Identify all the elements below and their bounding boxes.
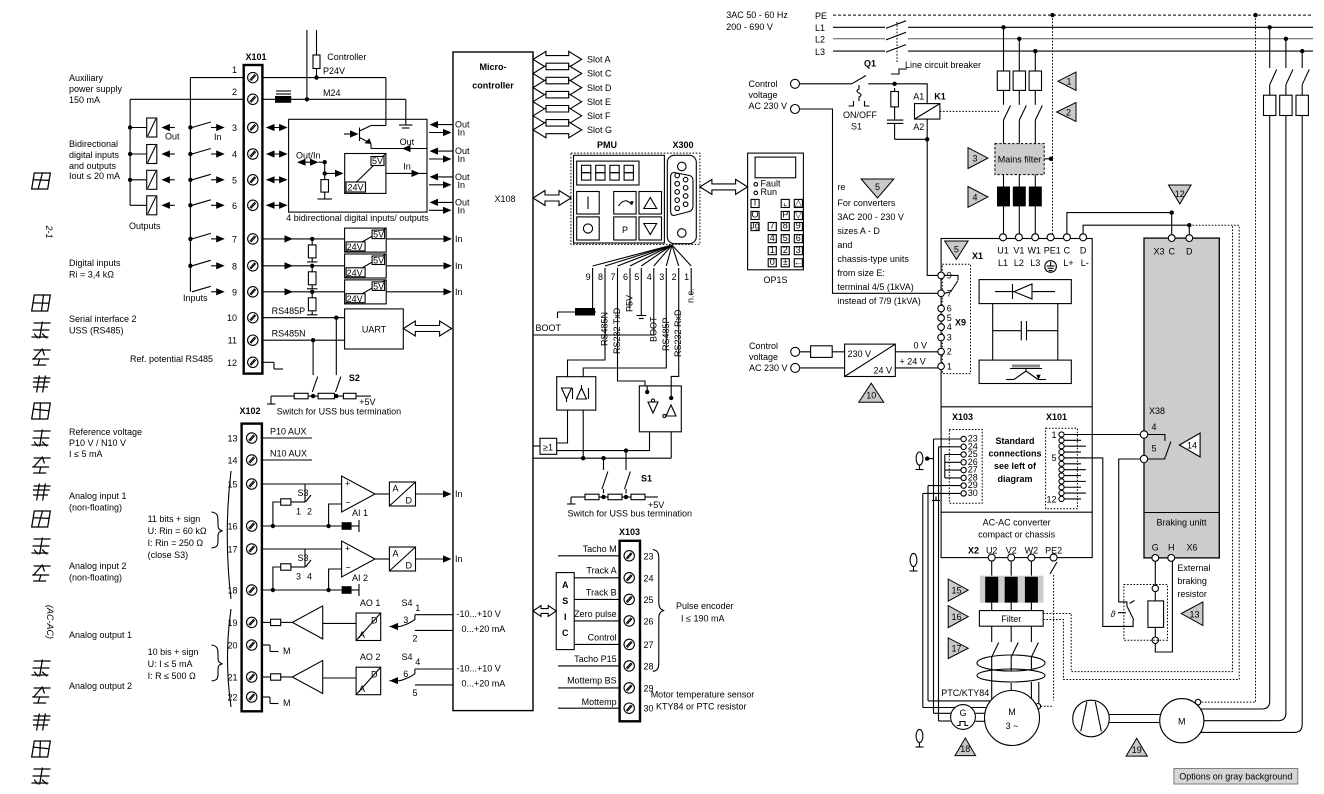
wire AI 2 to microcontroller (416, 558, 450, 560)
X9 terminal column (942, 264, 970, 373)
svg-text:Mains filter: Mains filter (998, 155, 1042, 165)
UART block (345, 309, 404, 349)
svg-text:Mottemp: Mottemp (582, 697, 617, 707)
svg-text:Control: Control (588, 633, 617, 643)
svg-text:A2: A2 (913, 122, 924, 132)
svg-text:Analog output 1: Analog output 1 (69, 630, 132, 640)
svg-text:For converters: For converters (837, 198, 896, 208)
option triangle 17 (948, 638, 968, 659)
fuse in control branch (894, 88, 896, 92)
svg-text:sizes A - D: sizes A - D (837, 226, 880, 236)
svg-text:Digital inputs: Digital inputs (69, 258, 121, 268)
X102 terminal 16 screw (247, 521, 257, 531)
capacitor in control branch (887, 119, 904, 121)
svg-text:PMU: PMU (597, 140, 617, 150)
X101 internal terminal 2 (1059, 438, 1064, 443)
svg-text:Ri = 3,4 kΩ: Ri = 3,4 kΩ (69, 270, 114, 280)
wire pin 8 RS485N (568, 282, 606, 377)
PE2 slash and dashed drop (1050, 562, 1057, 574)
input switch row 4 (188, 152, 192, 156)
output bus wire (129, 99, 131, 205)
svg-text:and outputs: and outputs (69, 161, 117, 171)
svg-text:UART: UART (362, 325, 387, 335)
wire transceiver to serial bus (582, 410, 584, 458)
rectifier block (979, 280, 1071, 304)
Out arrow to microcontroller row 3 (431, 124, 453, 126)
svg-text:12: 12 (1046, 494, 1056, 504)
svg-text:Pulse encoder: Pulse encoder (676, 601, 734, 611)
svg-text:27: 27 (644, 640, 654, 650)
svg-text:L2: L2 (815, 35, 825, 45)
svg-text:Control: Control (749, 79, 778, 89)
wire AI 1 to microcontroller (416, 493, 450, 495)
In arrow from microcontroller row 4 (429, 158, 450, 160)
svg-text:P10 V / N10 V: P10 V / N10 V (69, 438, 126, 448)
external braking resistor wiring (1154, 561, 1156, 585)
svg-text:I: I (564, 612, 567, 622)
svg-text:24V: 24V (347, 294, 363, 304)
svg-text:Switch for USS bus termination: Switch for USS bus termination (568, 509, 693, 519)
svg-text:Mottemp BS: Mottemp BS (567, 676, 617, 686)
svg-text:14: 14 (227, 456, 237, 466)
svg-text:In: In (455, 234, 463, 244)
tacho to motor shaft (975, 712, 985, 714)
svg-text:X9: X9 (955, 318, 966, 328)
svg-text:5: 5 (783, 233, 788, 243)
DC link wires (992, 304, 994, 361)
svg-text:150 mA: 150 mA (69, 95, 100, 105)
wire D to braking unit (1083, 225, 1189, 235)
wire P10 AUX terminal 13 (262, 437, 312, 439)
svg-text:3: 3 (659, 272, 664, 282)
svg-text:10: 10 (227, 313, 237, 323)
svg-text:External: External (1177, 563, 1210, 573)
svg-text:Run: Run (761, 187, 778, 197)
connector X300 sub-D (667, 155, 696, 243)
svg-text:-10...+10 V: -10...+10 V (457, 609, 501, 619)
svg-text:Slot D: Slot D (587, 83, 612, 93)
X102 terminal 13 screw (247, 433, 257, 443)
motor M2 PE terminal (1195, 699, 1201, 705)
svg-text:24V: 24V (347, 242, 363, 252)
svg-text:5: 5 (1051, 453, 1056, 463)
wire Track B (574, 598, 619, 600)
svg-text:AC 230 V: AC 230 V (749, 101, 788, 111)
wire transceiver to OR gate (557, 410, 568, 443)
svg-text:(non-floating): (non-floating) (69, 573, 122, 583)
S2 resistor chain (271, 395, 294, 397)
svg-text:In: In (214, 132, 222, 142)
svg-text:A: A (359, 684, 365, 694)
PE drop wire dashed (1052, 15, 1054, 234)
svg-text:I: Rin = 250 Ω: I: Rin = 250 Ω (148, 538, 204, 548)
svg-text:(close S3): (close S3) (148, 550, 189, 560)
optocoupler output row 4 (130, 153, 147, 155)
wire N10 AUX terminal 14 (262, 459, 312, 461)
slot arrow Slot E (533, 94, 582, 110)
svg-text:4: 4 (307, 572, 312, 582)
RS485 transceiver block (557, 377, 596, 410)
svg-text:9: 9 (586, 272, 591, 282)
svg-text:1: 1 (684, 272, 689, 282)
svg-text:AO 1: AO 1 (360, 598, 381, 608)
svg-text:Track B: Track B (586, 588, 617, 598)
second branch fuse 2 (1280, 95, 1292, 115)
brace 11 bits group (212, 512, 223, 548)
svg-text:D: D (406, 561, 413, 571)
contactor K1 contact phase 2 (1018, 90, 1020, 104)
wire 0V to X9-2 (895, 351, 941, 353)
svg-text:1: 1 (296, 507, 301, 517)
ASIC block (556, 573, 574, 650)
option triangle 16 (948, 606, 968, 628)
svg-text:S3: S3 (298, 488, 309, 498)
svg-text:←: ← (794, 257, 803, 267)
svg-text:7: 7 (610, 272, 615, 282)
svg-text:10: 10 (866, 391, 876, 401)
X101 internal terminal 9 (1059, 479, 1064, 484)
S1 tap wires (603, 458, 605, 470)
svg-text:Serial interface 2: Serial interface 2 (69, 314, 137, 324)
AC-AC converter enclosure (941, 239, 1092, 558)
op-amp AI 1 (342, 476, 375, 512)
svg-text:Out: Out (400, 137, 415, 147)
svg-text:24: 24 (644, 573, 654, 583)
svg-text:Zero pulse: Zero pulse (574, 609, 617, 619)
svg-text:3: 3 (296, 572, 301, 582)
OR gate (540, 438, 557, 454)
wire Mottemp BS (558, 687, 620, 689)
OP1S key 0 (768, 259, 776, 267)
In arrow from microcontroller row 3 (429, 132, 450, 134)
svg-text:11 bits + sign: 11 bits + sign (148, 514, 201, 524)
svg-text:11: 11 (228, 336, 237, 346)
buffer amplifier AO 1 (292, 606, 322, 639)
X101 terminal 9 screw (248, 287, 258, 297)
svg-text:M: M (1178, 717, 1186, 727)
In arrow from microcontroller row 5 (429, 184, 450, 186)
PMU button P (614, 217, 636, 240)
svg-text:15: 15 (951, 586, 961, 596)
arrow to DC-DC (325, 172, 341, 174)
svg-text:30: 30 (968, 488, 978, 498)
svg-text:0...+20 mA: 0...+20 mA (462, 678, 506, 688)
svg-text:controller: controller (472, 81, 514, 91)
wire control phase (800, 83, 852, 85)
svg-text:+5V: +5V (359, 397, 375, 407)
switch S3 branch AI 1 (304, 484, 306, 502)
input switch row 5 (188, 178, 192, 182)
phase wire to mains filter 1 (1003, 120, 1005, 144)
svg-text:+: + (345, 544, 350, 554)
svg-text:16: 16 (227, 522, 237, 532)
X101 terminal 10 screw (248, 313, 258, 323)
X101 internal terminal 10 (1059, 485, 1064, 490)
S2 switch slashes (312, 377, 317, 393)
second branch fuse 3 (1296, 95, 1308, 115)
X103 terminal 26 screw (624, 616, 634, 626)
svg-text:D: D (406, 496, 413, 506)
svg-text:terminal 4/5 (1kVA): terminal 4/5 (1kVA) (837, 282, 913, 292)
DC link capacitor (993, 330, 1022, 332)
wire terminal 9 to converter (262, 291, 344, 293)
svg-text:4: 4 (1152, 422, 1157, 432)
svg-text:Control: Control (749, 341, 778, 351)
input switch row 6 (188, 203, 192, 207)
svg-text:3: 3 (972, 154, 977, 164)
arrow into relay row 6 (163, 204, 175, 206)
X102 group bracket 19-22 (228, 609, 232, 707)
svg-text:7: 7 (770, 221, 775, 231)
control voltage terminals upper (791, 79, 800, 88)
wire terminal 7 to converter (262, 238, 344, 240)
wire P24V net from terminal 1 (262, 77, 386, 79)
X102 terminal 22 screw (247, 692, 257, 702)
wire X101-1 to X38-4 (1064, 434, 1140, 436)
svg-text:I: R ≤ 500 Ω: I: R ≤ 500 Ω (148, 671, 196, 681)
svg-text:PTC/KTY84: PTC/KTY84 (941, 688, 989, 698)
X101 terminal 12 screw (248, 357, 258, 367)
legend options on gray background (1174, 769, 1298, 785)
X101 terminal 2 screw (248, 94, 258, 104)
svg-text:Slot A: Slot A (587, 55, 611, 65)
wire terminal - AI 2 (262, 589, 342, 591)
serial bus wire (533, 457, 671, 459)
svg-text:PE: PE (815, 11, 827, 21)
OP1S key O (751, 211, 759, 219)
X300 pin fan wires (593, 245, 672, 266)
PMU display digit 2 (596, 165, 605, 172)
24V-5V converter row 8 (345, 254, 387, 278)
OR gate output wire (557, 432, 650, 451)
svg-text:5: 5 (232, 175, 237, 185)
wire Mottemp BS to motor (928, 485, 961, 487)
svg-text:24V: 24V (347, 268, 363, 278)
svg-text:Slot F: Slot F (587, 111, 611, 121)
X101 terminal 6 screw (248, 200, 258, 210)
pulldown resistor row 8 (311, 266, 313, 272)
svg-text:Auxiliary: Auxiliary (69, 73, 104, 83)
svg-text:Track A: Track A (586, 566, 616, 576)
OP1S key 5 (781, 235, 789, 243)
svg-text:Tacho P15: Tacho P15 (574, 654, 617, 664)
feedback wire AI 1 (329, 504, 342, 526)
X103 terminal 30 screw (624, 703, 634, 713)
X103 terminal 24 screw (624, 573, 634, 583)
fuse F2 (1013, 71, 1025, 90)
pulldown resistor in I/O block (324, 162, 326, 179)
svg-text:1: 1 (232, 65, 237, 75)
svg-text:Motor temperature sensor: Motor temperature sensor (651, 690, 755, 700)
A-D converter AI 2 (389, 547, 415, 571)
svg-text:18: 18 (227, 586, 237, 596)
svg-text:1: 1 (1051, 430, 1056, 440)
svg-text:I ≤ 5 mA: I ≤ 5 mA (69, 449, 102, 459)
second branch phase 2 upper (1285, 39, 1287, 68)
option triangle 13 (1181, 602, 1203, 626)
svg-text:In: In (455, 489, 463, 499)
svg-text:instead of 7/9 (1kVA): instead of 7/9 (1kVA) (837, 296, 920, 306)
wire -10...+10 V AO 2 (415, 668, 453, 670)
wire 0...+20 mA AO 1 (415, 629, 453, 631)
svg-text:diagram: diagram (997, 474, 1032, 484)
contactor coil K1 (915, 104, 940, 120)
OP1S key 2 (781, 247, 789, 255)
ground bar M24 in I/O block (399, 124, 413, 126)
wire Track A (574, 577, 619, 579)
X101 internal terminal 3 (1059, 444, 1064, 449)
input switch row 8 (188, 264, 192, 268)
X101 internal terminal 8 (1059, 473, 1064, 478)
wire A2 to X9-9 (926, 119, 928, 139)
svg-text:5: 5 (1152, 444, 1157, 454)
PMU display (577, 161, 639, 185)
PMU display digit 1 (582, 165, 591, 172)
wire pin 9 termination (592, 282, 594, 312)
slot arrow Slot D (533, 80, 582, 96)
terminal strip X102 (242, 424, 262, 712)
svg-text:13: 13 (1189, 610, 1199, 620)
fuse F1 (997, 71, 1009, 90)
commutation reactors (1003, 175, 1005, 187)
svg-text:6: 6 (623, 272, 628, 282)
Out arrow to microcontroller row 4 (431, 150, 453, 152)
svg-text:5: 5 (875, 182, 880, 192)
OP1S key &#9651; (794, 199, 802, 207)
svg-text:compact or chassis: compact or chassis (978, 530, 1056, 540)
D-A converter AO 2 (323, 677, 356, 679)
option triangle 2 (1057, 103, 1076, 122)
svg-text:connections: connections (988, 449, 1041, 459)
PE dashed drop right (1201, 15, 1256, 702)
24V-5V converter row 7 (345, 228, 387, 252)
X103 internal dotted box (949, 430, 982, 504)
svg-text:A1: A1 (913, 92, 924, 102)
OP1S key &#9661; (794, 211, 802, 219)
Out arrow to microcontroller row 5 (431, 176, 453, 178)
svg-text:power supply: power supply (69, 84, 123, 94)
24V-5V converter row 9 (345, 280, 387, 304)
X103 internal terminal 27 (961, 467, 966, 472)
second branch switch 2 (1286, 70, 1293, 85)
PMU display digit 4 (624, 165, 633, 172)
input switch row 3 (188, 125, 192, 129)
second branch phase 3 upper (1301, 51, 1303, 68)
svg-text:M24: M24 (323, 88, 341, 98)
svg-text:5: 5 (634, 272, 639, 282)
svg-text:AC 230 V: AC 230 V (749, 363, 788, 373)
svg-text:V1: V1 (1013, 246, 1024, 256)
phase wires X2 down (991, 561, 993, 576)
In wire in I/O block (386, 172, 427, 174)
svg-text:P: P (782, 210, 788, 220)
svg-text:In: In (458, 180, 466, 190)
svg-text:C: C (562, 628, 569, 638)
In arrow from microcontroller row 6 (429, 209, 450, 211)
UART double arrow (403, 321, 451, 336)
svg-text:X1: X1 (972, 251, 983, 261)
svg-text:In: In (403, 162, 411, 172)
slot arrow Slot C (533, 66, 582, 82)
svg-text:Line circuit breaker: Line circuit breaker (905, 60, 981, 70)
ground M terminal 22 (262, 696, 270, 698)
wire pin 7 RS232 TxD (618, 282, 646, 386)
svg-text:U1: U1 (997, 246, 1009, 256)
phase wire to mains filter 3 (1034, 120, 1036, 144)
contactor K1 contact phase 1 (1003, 90, 1005, 104)
svg-text:L+: L+ (1063, 258, 1073, 268)
fan (1073, 700, 1110, 737)
svg-text:AC-AC converter: AC-AC converter (983, 518, 1051, 528)
optocoupler output row 5 (130, 179, 147, 181)
svg-text:digital inputs: digital inputs (69, 150, 120, 160)
svg-text:18: 18 (960, 744, 970, 754)
svg-text:Options on gray background: Options on gray background (1179, 772, 1292, 782)
wire terminal 2 left (130, 98, 244, 100)
svg-text:and: and (837, 240, 852, 250)
svg-text:S3: S3 (298, 553, 309, 563)
control voltage terminals lower (791, 347, 800, 356)
svg-text:200 - 690 V: 200 - 690 V (726, 22, 773, 32)
svg-text:0: 0 (770, 257, 775, 267)
svg-text:In: In (455, 554, 463, 564)
transistor in I/O block (359, 128, 361, 142)
switch S3 branch AI 2 (304, 549, 306, 567)
svg-text:Braking unitt: Braking unitt (1156, 518, 1207, 528)
wire -10...+10 V AO 1 (415, 614, 453, 616)
svg-text:3: 3 (947, 333, 952, 343)
X101 terminal 7 screw (248, 234, 258, 244)
tacho wires (934, 712, 951, 714)
svg-text:≥1: ≥1 (543, 443, 553, 453)
svg-text:D: D (371, 616, 378, 626)
svg-text:X101: X101 (1046, 412, 1067, 422)
capacitor to ground AI 2 (342, 586, 352, 594)
svg-text:X6: X6 (1187, 543, 1198, 553)
svg-text:In: In (458, 154, 466, 164)
X101 internal terminal 5 (1059, 455, 1064, 460)
svg-text:5: 5 (954, 245, 959, 255)
X103 terminal 27 screw (624, 639, 634, 649)
svg-text:−: − (346, 498, 351, 508)
svg-text:S4: S4 (402, 652, 413, 662)
tachometer G (951, 705, 976, 730)
svg-text:K1: K1 (934, 92, 946, 102)
X300 pin separator ticks (592, 268, 594, 282)
svg-text:voltage: voltage (749, 90, 778, 100)
wire Tacho P15 (558, 665, 620, 667)
motor reactor coils (977, 655, 1045, 671)
second branch phase 2 lower (1200, 116, 1286, 721)
svg-text:△: △ (795, 198, 802, 208)
braking resistor dashed box (1124, 585, 1168, 641)
wire M24 net from terminal 2 (262, 98, 405, 100)
X102 terminal 19 screw (247, 617, 257, 627)
svg-text:A: A (359, 630, 365, 640)
X103 internal terminal 24 (961, 444, 966, 449)
ground M terminal 20 (262, 644, 270, 646)
svg-text:X108: X108 (494, 194, 515, 204)
svg-text:from size E:: from size E: (837, 268, 885, 278)
wire terminal + AI 1 (262, 483, 342, 485)
second branch switch 3 (1302, 70, 1309, 85)
svg-text:(AC-AC): (AC-AC) (45, 605, 55, 639)
svg-text:A: A (393, 549, 399, 559)
svg-text:20: 20 (227, 641, 237, 651)
wire pin 3 RS485P (583, 282, 666, 377)
svg-text:7: 7 (232, 234, 237, 244)
svg-text:U: I ≤ 5 mA: U: I ≤ 5 mA (148, 659, 193, 669)
